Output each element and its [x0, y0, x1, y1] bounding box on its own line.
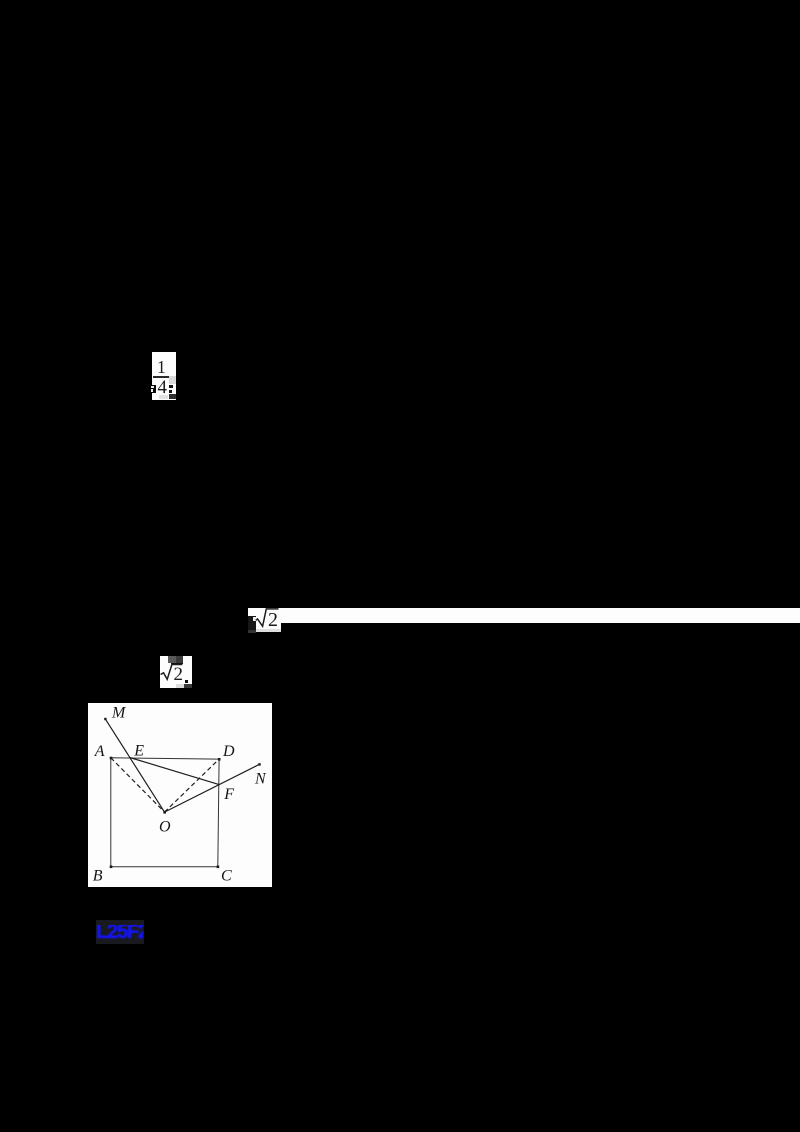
svg-text:A: A — [93, 743, 104, 760]
svg-text:O: O — [159, 818, 171, 835]
svg-text:E: E — [133, 742, 144, 759]
svg-text:B: B — [92, 867, 102, 884]
svg-text:F: F — [223, 786, 234, 803]
svg-text:M: M — [111, 704, 127, 721]
svg-text:C: C — [221, 867, 232, 884]
svg-text:N: N — [254, 770, 267, 787]
svg-text:D: D — [222, 742, 235, 759]
